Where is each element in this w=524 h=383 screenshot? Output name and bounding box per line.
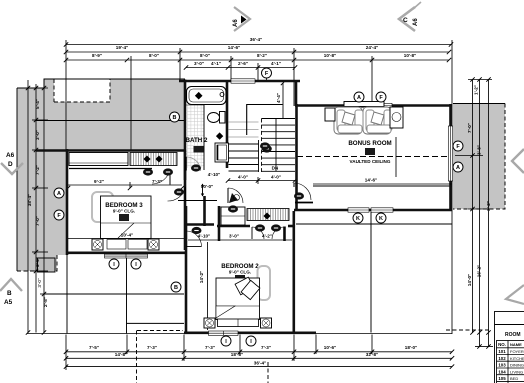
svg-text:2'-8": 2'-8" [43,297,48,307]
svg-text:8'-2": 8'-2" [257,53,267,58]
svg-text:14'-6": 14'-6" [228,45,240,50]
svg-text:4'-1": 4'-1" [211,61,221,66]
svg-text:ROOM: ROOM [505,332,521,338]
svg-text:DN: DN [272,166,279,171]
svg-text:NAME: NAME [510,342,522,347]
svg-text:A5: A5 [4,299,13,306]
svg-text:9'-0" CLG.: 9'-0" CLG. [229,270,251,275]
svg-text:18'-8": 18'-8" [231,352,243,357]
svg-text:8'-0": 8'-0" [200,53,210,58]
svg-text:A6: A6 [233,19,239,27]
svg-text:K: K [379,216,383,222]
svg-text:7'-0": 7'-0" [467,123,472,133]
svg-text:1'-2": 1'-2" [474,85,479,95]
svg-text:LIVING: LIVING [510,369,523,374]
svg-text:A6: A6 [6,152,15,159]
svg-text:10'-8": 10'-8" [404,53,416,58]
svg-text:3'-0": 3'-0" [229,234,239,239]
svg-text:7'-0": 7'-0" [35,216,40,226]
svg-text:3'-2": 3'-2" [486,201,491,211]
svg-text:C: C [403,17,408,24]
svg-text:32'-8": 32'-8" [366,352,378,357]
svg-text:4'-10": 4'-10" [198,234,210,239]
svg-text:10'-6": 10'-6" [324,345,336,350]
svg-text:3'-0": 3'-0" [37,278,42,288]
svg-text:4'-0": 4'-0" [238,175,248,180]
svg-text:K: K [356,216,360,222]
svg-text:5'-4": 5'-4" [35,99,40,109]
svg-text:10'-8": 10'-8" [324,53,336,58]
svg-text:A6: A6 [413,18,419,26]
svg-text:14'-2": 14'-2" [199,271,204,283]
svg-text:38'-4": 38'-4" [27,194,32,206]
svg-text:9'-2": 9'-2" [94,179,104,184]
svg-text:3'-0": 3'-0" [194,61,204,66]
svg-text:BED: BED [510,376,518,381]
svg-text:A: A [57,191,61,197]
svg-text:36'-4": 36'-4" [250,37,262,42]
svg-text:36'-4": 36'-4" [254,361,266,366]
svg-text:B: B [7,290,12,297]
svg-text:4'-1": 4'-1" [271,61,281,66]
svg-text:KITCHEN: KITCHEN [510,356,524,361]
svg-text:4'-10": 4'-10" [208,172,220,177]
svg-text:14'-0": 14'-0" [467,274,472,286]
svg-text:BONUS ROOM: BONUS ROOM [348,140,391,147]
svg-text:16'-2": 16'-2" [477,265,482,277]
svg-text:105: 105 [498,376,506,381]
svg-text:7'-2": 7'-2" [35,165,40,175]
svg-text:3'-0": 3'-0" [35,257,40,267]
svg-text:BATH 2: BATH 2 [186,137,208,144]
svg-text:18'-0": 18'-0" [405,345,417,350]
svg-text:14'-6": 14'-6" [365,178,377,183]
svg-text:NO.: NO. [498,342,506,347]
svg-text:B: B [173,115,177,121]
svg-text:7'-3": 7'-3" [205,345,215,350]
svg-text:A: A [456,165,460,171]
svg-text:7'-3": 7'-3" [261,345,271,350]
svg-text:2'-6": 2'-6" [238,61,248,66]
svg-text:102: 102 [498,356,506,361]
svg-text:A: A [357,95,361,101]
svg-text:B: B [174,285,178,291]
svg-text:FOYER: FOYER [510,349,524,354]
svg-text:DINING: DINING [510,363,524,368]
svg-text:7'-3": 7'-3" [147,345,157,350]
svg-text:9'-0" CLG.: 9'-0" CLG. [113,209,135,214]
svg-text:4'-2": 4'-2" [262,234,272,239]
svg-text:4'-0": 4'-0" [271,175,281,180]
svg-text:3'-8": 3'-8" [477,145,482,155]
svg-text:10'-4": 10'-4" [121,233,133,238]
svg-text:103: 103 [498,363,506,368]
svg-text:104: 104 [498,369,506,374]
svg-text:D: D [8,161,13,168]
svg-text:8'-9": 8'-9" [92,53,102,58]
svg-text:3'-0": 3'-0" [35,130,40,140]
svg-text:7'-5": 7'-5" [89,345,99,350]
svg-text:4'-4": 4'-4" [276,93,281,103]
svg-text:8'-0": 8'-0" [149,53,159,58]
svg-text:101: 101 [498,349,506,354]
svg-text:VAULTED CEILING: VAULTED CEILING [350,159,391,164]
svg-text:19'-4": 19'-4" [116,45,128,50]
svg-text:14'-8": 14'-8" [115,352,127,357]
svg-text:24'-4": 24'-4" [366,45,378,50]
